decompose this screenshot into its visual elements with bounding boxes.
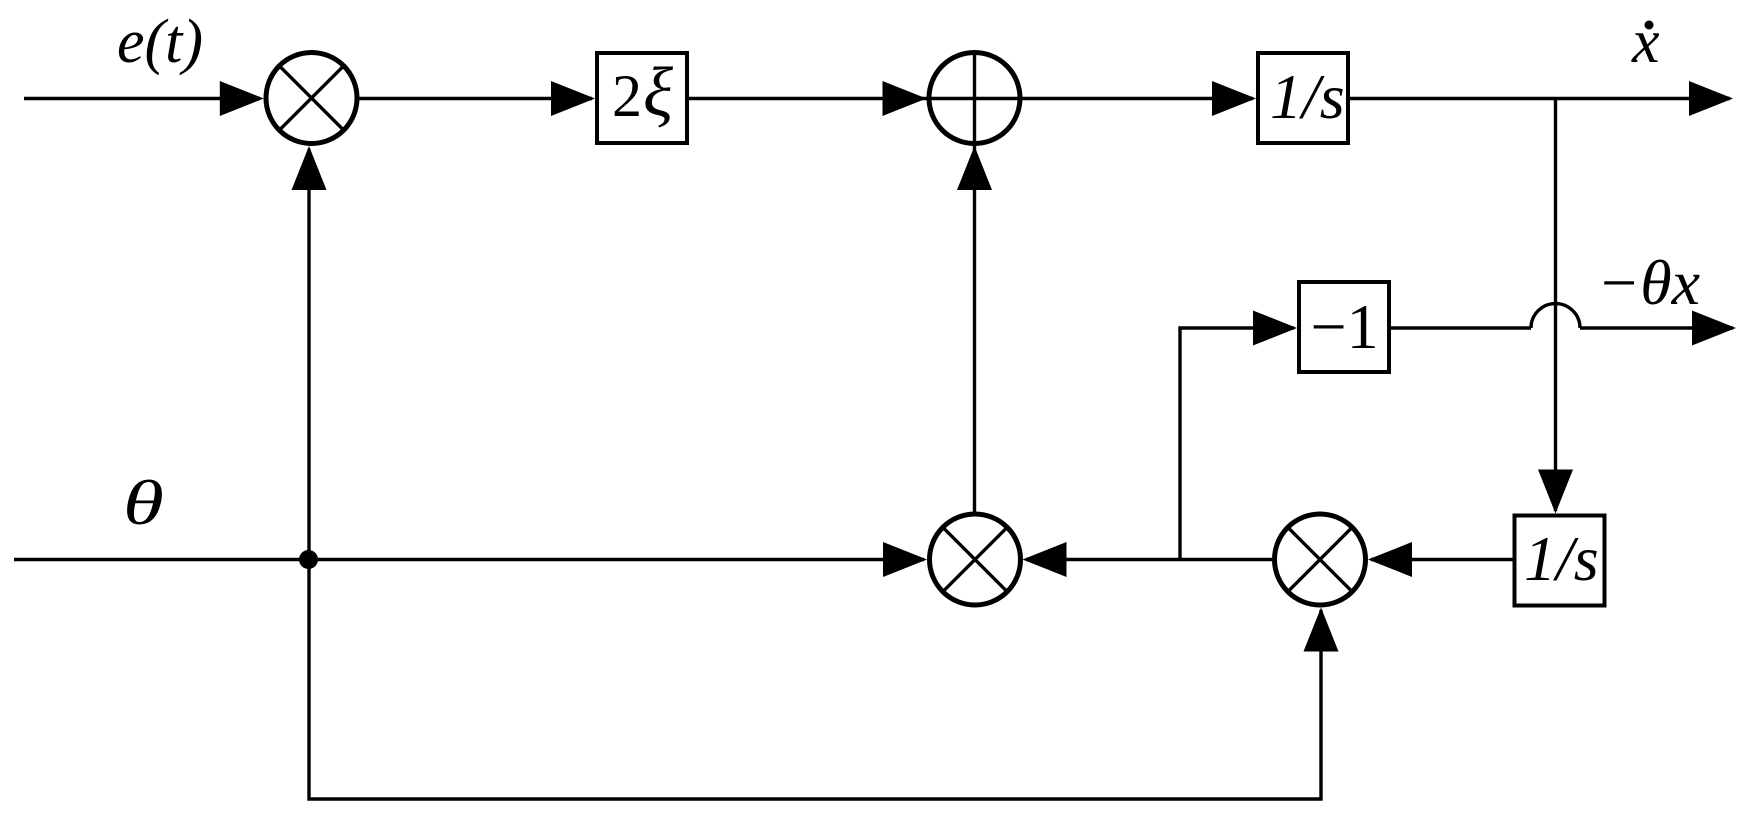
gain block 2xi box [597,53,687,143]
arrowhead into U1 [1212,81,1256,116]
svg-text:−1: −1 [1311,291,1379,362]
node theta junction dot [299,550,318,569]
svg-text:1/s: 1/s [1524,523,1599,594]
integrator U2 box 1/s [1515,516,1605,606]
arrowhead into U2 top [1538,470,1573,514]
multiplier M1 circle [266,53,357,144]
svg-text:θ: θ [123,468,164,539]
svg-text:−θx: −θx [1597,247,1700,318]
wire -1 block output left segment [1391,326,1531,329]
svg-text:1/s: 1/s [1270,61,1345,132]
wire feedback bottom path to M3 [309,560,1321,800]
wire M3 output to M2 [1026,558,1272,561]
wire U1 to output xdot [1350,97,1730,100]
wire 2xi block through summer S1 to integrator U1 [689,97,1253,100]
wire tap to -1 block [1180,328,1294,560]
arrowhead into S1 left [883,81,927,116]
arrowhead into M3 bottom [1304,608,1339,652]
multiplier M3 cross [1288,527,1352,591]
arrowhead into M1 left [220,81,264,116]
svg-text:e(t): e(t) [117,8,203,76]
wire vertical plus bar through S1 down to M2 [973,51,976,512]
arrowhead into S1 bottom [957,146,992,190]
multiplier M2 circle [930,514,1021,605]
summer S1 circle [929,53,1020,144]
arrowhead into 2xi block [551,81,595,116]
wire hop to -thetax output [1580,326,1733,329]
wire U2 to M3 [1371,558,1513,561]
wire crossover hop [1531,304,1580,328]
arrowhead into M1 bottom [292,146,327,190]
arrowhead output xdot [1689,81,1733,116]
label xdot dot [1645,21,1654,30]
multiplier M1 cross [279,66,343,130]
arrowhead into -1 block [1253,311,1297,346]
multiplier M3 circle [1275,514,1366,605]
integrator U1 box 1/s [1258,53,1348,143]
multiplier M2 cross [943,527,1007,591]
arrowhead into M2 right [1023,542,1067,577]
arrowhead into M2 left [883,542,927,577]
wire theta input [14,558,924,561]
wire e(t) input [24,97,260,100]
arrowhead into M3 right [1368,542,1412,577]
svg-text:2ξ: 2ξ [612,54,673,131]
gain block -1 box [1299,282,1389,372]
wire theta node up to M1 [307,149,310,560]
arrowhead output -thetax [1692,311,1736,346]
wire M1 to 2xi block [359,97,592,100]
wire right column from node xdot down to integrator U2 [1554,98,1557,511]
svg-text:x: x [1631,8,1660,76]
